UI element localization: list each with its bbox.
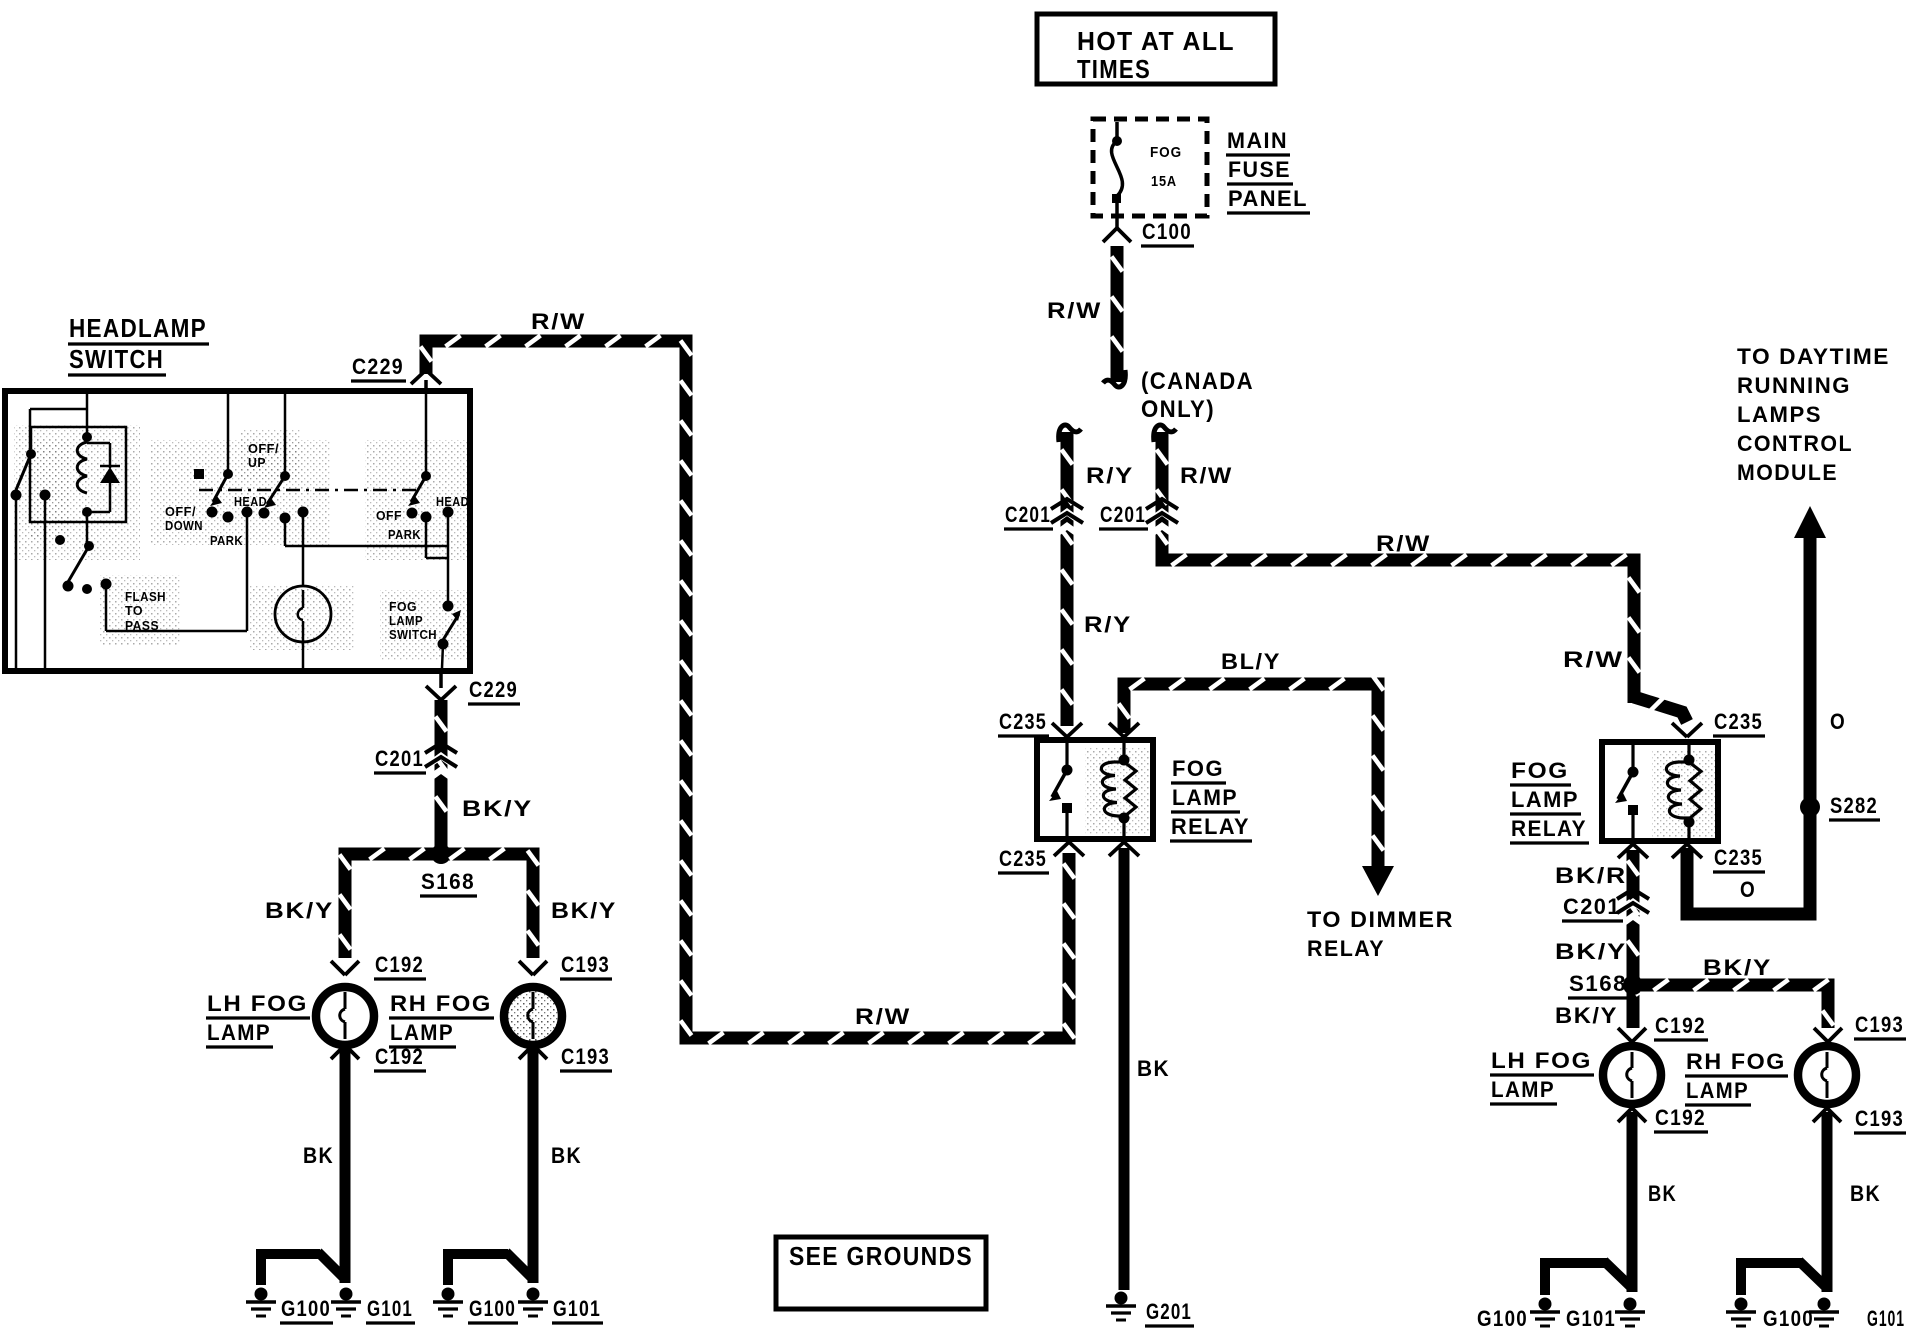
arrow to dimmer relay — [1362, 866, 1394, 896]
headlamp switch mid column A — [227, 394, 230, 470]
svg-text:R/W: R/W — [1047, 298, 1102, 323]
svg-text:OFF/: OFF/ — [165, 504, 196, 519]
wire BK/Y from headlamp switch — [435, 700, 448, 848]
svg-text:C201: C201 — [1100, 502, 1146, 527]
lamp LH FOG LAMP left — [316, 987, 374, 1045]
connector C193 left bottom pin — [519, 1045, 533, 1059]
svg-text:LAMP: LAMP — [390, 1020, 454, 1045]
svg-text:R/Y: R/Y — [1086, 463, 1134, 488]
svg-text:BK/Y: BK/Y — [462, 796, 533, 821]
headlamp switch small pad — [194, 469, 204, 479]
svg-text:C192: C192 — [1655, 1013, 1706, 1038]
svg-text:SWITCH: SWITCH — [69, 344, 164, 374]
svg-text:C193: C193 — [561, 1044, 610, 1069]
svg-text:G201: G201 — [1146, 1299, 1192, 1324]
svg-text:LAMP: LAMP — [389, 613, 423, 628]
fog lamp relay U2 box — [1602, 742, 1718, 841]
svg-text:LAMP: LAMP — [207, 1020, 271, 1045]
connector C201 left inline — [1056, 512, 1078, 520]
svg-text:S168: S168 — [1569, 971, 1627, 996]
ground G101 left1 — [340, 1288, 353, 1301]
svg-text:O: O — [1740, 877, 1756, 902]
fuse FOG 15A (dashed main fuse panel box) — [1093, 119, 1207, 216]
svg-text:LAMP: LAMP — [1511, 787, 1579, 812]
svg-text:TO DAYTIME: TO DAYTIME — [1737, 344, 1890, 369]
svg-text:HOT AT ALL: HOT AT ALL — [1077, 26, 1235, 56]
wire R/Y branch — [1059, 425, 1081, 442]
svg-text:R/Y: R/Y — [1084, 612, 1132, 637]
headlamp switch internal coil — [86, 394, 89, 433]
connector C100 symbol — [1115, 216, 1119, 228]
svg-text:MODULE: MODULE — [1737, 460, 1838, 485]
svg-text:LAMPS: LAMPS — [1737, 402, 1822, 427]
svg-text:C235: C235 — [999, 846, 1047, 871]
fuse element — [1115, 122, 1119, 138]
svg-text:OFF: OFF — [376, 508, 402, 523]
fog lamp relay U1 box — [1037, 740, 1153, 839]
svg-text:SWITCH: SWITCH — [389, 627, 437, 642]
svg-text:RH FOG: RH FOG — [390, 991, 492, 1016]
svg-text:C193: C193 — [1855, 1012, 1904, 1037]
headlamp switch lamp feed — [302, 515, 305, 586]
svg-text:15A: 15A — [1151, 173, 1177, 190]
svg-text:R/W: R/W — [1376, 531, 1431, 556]
wire BL/Y to dimmer relay — [1124, 684, 1378, 868]
lamp RH FOG LAMP left — [504, 987, 562, 1045]
svg-text:C201: C201 — [1005, 502, 1051, 527]
note box SEE GROUNDS — [776, 1237, 986, 1309]
svg-text:RELAY: RELAY — [1171, 814, 1250, 839]
svg-text:FOG: FOG — [1511, 758, 1569, 783]
wire R/W branch to right relay — [1154, 425, 1176, 442]
wire R/W from fuse C100 — [1111, 246, 1124, 382]
svg-text:OFF/: OFF/ — [248, 441, 279, 456]
connector C229 bottom pin — [439, 671, 443, 688]
connector C193 right bottom pin — [1813, 1108, 1827, 1122]
fog lamp relay U1 switch — [1065, 743, 1068, 766]
svg-text:BK/Y: BK/Y — [1555, 1003, 1618, 1028]
svg-text:BK/Y: BK/Y — [1703, 955, 1772, 980]
fog lamp relay U1 coil — [1122, 743, 1125, 757]
connector C192 left top pin — [331, 961, 345, 975]
connector C235 center bottom-left pin — [1054, 842, 1069, 856]
connector C201 switch inline — [430, 756, 452, 764]
svg-text:BK: BK — [551, 1143, 582, 1168]
svg-text:BK: BK — [303, 1143, 334, 1168]
svg-text:C192: C192 — [375, 1044, 424, 1069]
svg-text:R/W: R/W — [1180, 463, 1233, 488]
svg-text:PANEL: PANEL — [1228, 186, 1308, 211]
connector C201 right inline — [1151, 512, 1173, 520]
svg-text:LAMP: LAMP — [1686, 1078, 1749, 1103]
svg-text:R/W: R/W — [1563, 647, 1624, 672]
connector C235 center relay top-right pin — [1109, 723, 1124, 737]
svg-text:MAIN: MAIN — [1227, 128, 1288, 153]
svg-text:S168: S168 — [421, 869, 475, 894]
headlamp switch left contacts — [26, 449, 36, 459]
wire O right relay coil to S282 riser — [1687, 538, 1810, 914]
headlamp switch fog lamp switch — [443, 601, 454, 612]
connector C235 right relay bottom-left pin — [1618, 844, 1633, 858]
connector C235 right relay bottom-right pin — [1672, 844, 1687, 858]
svg-text:ONLY): ONLY) — [1141, 396, 1215, 423]
svg-text:RH FOG: RH FOG — [1686, 1049, 1786, 1074]
svg-text:(CANADA: (CANADA — [1141, 368, 1254, 395]
wire BK/Y to LH fog lamp — [345, 854, 533, 958]
svg-text:HEAD: HEAD — [234, 494, 267, 509]
headlamp switch flash-to-pass lever — [55, 535, 65, 545]
svg-text:C229: C229 — [469, 677, 518, 702]
svg-text:HEAD: HEAD — [436, 494, 469, 509]
svg-text:R/W: R/W — [855, 1004, 911, 1029]
svg-text:R/W: R/W — [531, 309, 586, 334]
splice S282 — [1800, 797, 1820, 817]
svg-text:LH FOG: LH FOG — [207, 991, 308, 1016]
connector C201 right column inline — [1622, 902, 1644, 910]
connector C235 right relay top pin — [1672, 723, 1687, 737]
svg-text:C235: C235 — [999, 709, 1047, 734]
splice S168 left — [431, 844, 451, 864]
svg-text:PARK: PARK — [210, 533, 243, 548]
svg-text:DOWN: DOWN — [165, 518, 203, 533]
splice S168 right — [1623, 975, 1643, 995]
svg-text:G100: G100 — [469, 1296, 516, 1321]
svg-text:PASS: PASS — [125, 618, 159, 633]
headlamp switch internal diode — [87, 442, 110, 445]
headlamp switch box — [5, 391, 470, 671]
headlamp switch park bus — [284, 521, 287, 546]
svg-text:BK: BK — [1850, 1181, 1881, 1206]
svg-text:BK/Y: BK/Y — [265, 898, 334, 923]
svg-text:C235: C235 — [1714, 845, 1763, 870]
svg-text:C192: C192 — [1655, 1105, 1706, 1130]
svg-text:CONTROL: CONTROL — [1737, 431, 1853, 456]
svg-text:C201: C201 — [1563, 894, 1621, 919]
svg-text:RELAY: RELAY — [1307, 936, 1385, 961]
svg-text:G100: G100 — [1477, 1306, 1528, 1328]
svg-text:BK/R: BK/R — [1555, 863, 1627, 888]
svg-text:TO: TO — [125, 603, 143, 618]
ground G100 left2 — [442, 1288, 455, 1301]
svg-text:C235: C235 — [1714, 709, 1763, 734]
ground G100 right1 — [1539, 1298, 1552, 1311]
svg-text:PARK: PARK — [388, 527, 421, 542]
wire BK center relay to ground — [1119, 848, 1130, 1290]
connector C193 left top pin — [519, 961, 533, 975]
headlamp switch instrument lamp — [275, 586, 331, 642]
svg-text:LAMP: LAMP — [1172, 785, 1238, 810]
svg-text:G101: G101 — [1867, 1306, 1905, 1328]
svg-text:FOG: FOG — [389, 599, 417, 614]
ground G100 right2 — [1735, 1298, 1748, 1311]
svg-text:HEADLAMP: HEADLAMP — [69, 313, 207, 343]
svg-text:BK/Y: BK/Y — [551, 898, 617, 923]
svg-text:G100: G100 — [1763, 1306, 1814, 1328]
arrow to daytime running lamps module — [1794, 506, 1826, 538]
headlamp switch mechanical link dashed line — [199, 489, 420, 492]
wire BK/R BK/Y right column — [1627, 850, 1640, 1028]
svg-text:G101: G101 — [367, 1296, 413, 1321]
svg-text:RELAY: RELAY — [1511, 816, 1587, 841]
svg-text:FOG: FOG — [1150, 144, 1182, 161]
svg-text:G100: G100 — [281, 1296, 331, 1321]
connector C193 right top pin — [1814, 1028, 1828, 1042]
ground G101 left2 — [527, 1288, 540, 1301]
wire BK/Y branch to RH fog lamp — [1641, 985, 1828, 1028]
svg-text:G101: G101 — [1566, 1306, 1616, 1328]
svg-text:C193: C193 — [1855, 1106, 1904, 1131]
svg-text:UP: UP — [248, 455, 266, 470]
svg-text:SEE GROUNDS: SEE GROUNDS — [789, 1241, 973, 1271]
ground G100 left1 — [255, 1288, 268, 1301]
wire BK RH fog right to ground — [1822, 1112, 1833, 1292]
wire BK LH fog right to ground — [1627, 1112, 1638, 1292]
svg-text:TO DIMMER: TO DIMMER — [1307, 907, 1454, 932]
lamp RH FOG LAMP right — [1798, 1046, 1856, 1104]
fog lamp relay U2 coil — [1687, 745, 1690, 757]
connector C192 right bottom pin — [1618, 1108, 1632, 1122]
ground G201 — [1115, 1292, 1128, 1305]
svg-text:C193: C193 — [561, 952, 610, 977]
svg-text:O: O — [1830, 709, 1846, 734]
svg-text:FOG: FOG — [1172, 756, 1224, 781]
svg-text:FLASH: FLASH — [125, 589, 166, 604]
wire BK RH fog left to ground — [528, 1048, 539, 1283]
svg-text:BK: BK — [1648, 1181, 1677, 1206]
svg-text:LAMP: LAMP — [1491, 1077, 1555, 1102]
headlamp switch mid column B — [284, 394, 287, 472]
connector C192 right top pin — [1618, 1028, 1632, 1042]
svg-text:BK: BK — [1137, 1056, 1170, 1081]
ground G101 right2 — [1818, 1298, 1831, 1311]
svg-text:RUNNING: RUNNING — [1737, 373, 1851, 398]
svg-text:FUSE: FUSE — [1228, 157, 1291, 182]
connector C192 left bottom pin — [331, 1045, 345, 1059]
wire BK LH fog left to ground — [340, 1048, 351, 1283]
ground G101 right1 — [1624, 1298, 1637, 1311]
fog lamp relay U2 switch — [1631, 745, 1634, 768]
headlamp switch internal relay box — [30, 427, 126, 522]
headlamp switch right column — [425, 394, 428, 472]
svg-text:C192: C192 — [375, 952, 424, 977]
svg-text:LH FOG: LH FOG — [1491, 1048, 1592, 1073]
svg-text:TIMES: TIMES — [1077, 54, 1151, 84]
svg-text:G101: G101 — [553, 1296, 601, 1321]
svg-text:C229: C229 — [352, 354, 404, 379]
connector C235 center bottom-right pin — [1109, 842, 1124, 856]
svg-text:S282: S282 — [1830, 793, 1878, 818]
svg-text:C100: C100 — [1142, 219, 1192, 244]
svg-text:BK/Y: BK/Y — [1555, 939, 1627, 964]
lamp LH FOG LAMP right — [1603, 1046, 1661, 1104]
wire R/W main run — [426, 341, 1069, 1038]
svg-text:BL/Y: BL/Y — [1221, 649, 1281, 674]
svg-text:C201: C201 — [375, 746, 424, 771]
junction box label HOT AT ALL TIMES — [1037, 14, 1275, 84]
connector C235 relay top-left pin — [1052, 723, 1067, 737]
connector C229 top pin — [411, 370, 426, 384]
